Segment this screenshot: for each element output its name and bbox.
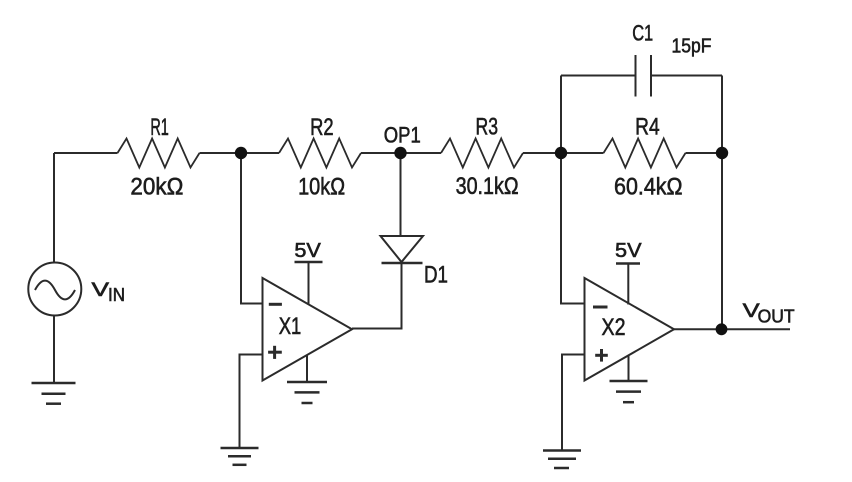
svg-text:5V: 5V xyxy=(294,240,321,262)
node OP1 label xyxy=(384,123,421,148)
svg-text:R3: R3 xyxy=(476,114,499,141)
svg-text:IN: IN xyxy=(108,285,125,305)
wire node A to R2 xyxy=(241,152,279,154)
X1 inverting input minus mark xyxy=(269,303,282,306)
sine symbol xyxy=(35,281,75,300)
wire capacitor top left xyxy=(561,75,636,77)
source circle xyxy=(28,263,81,316)
ground (X2 non-inverting input) xyxy=(543,451,581,469)
resistor R1 zigzag body xyxy=(118,139,200,168)
op-amp X1 xyxy=(263,278,353,381)
svg-text:15pF: 15pF xyxy=(672,36,712,58)
wire X2 to ground xyxy=(628,355,630,381)
svg-text:10kΩ: 10kΩ xyxy=(298,174,345,201)
svg-text:R1: R1 xyxy=(150,114,169,141)
wire R4 to node C xyxy=(686,152,723,154)
diode D1 xyxy=(381,236,449,289)
ground (X1 op-amp) xyxy=(287,356,327,404)
resistor R4 xyxy=(604,114,686,201)
wire capacitor top right xyxy=(651,75,722,77)
wire R1 to node A xyxy=(200,152,242,154)
resistor R2 zigzag body xyxy=(279,139,361,168)
wire supply to X2 xyxy=(627,264,629,305)
wire R2 to node OP1 and on to R3 xyxy=(361,152,441,154)
op-amp X1 triangle xyxy=(263,278,353,381)
wire R3 to node B xyxy=(523,152,604,154)
resistor R4 zigzag body xyxy=(604,139,686,168)
node VOUT junction dot xyxy=(716,323,728,335)
svg-text:R4: R4 xyxy=(635,114,660,141)
supply bar xyxy=(295,261,323,264)
svg-text:5V: 5V xyxy=(615,240,642,262)
X1 non-inverting input plus mark xyxy=(268,351,282,354)
wire X1 non-inverting input to ground xyxy=(240,355,263,449)
capacitor C1 xyxy=(632,21,711,97)
wire source to ground xyxy=(53,316,55,384)
wire X2 non-inverting input to ground xyxy=(562,355,585,451)
svg-text:60.4kΩ: 60.4kΩ xyxy=(614,174,683,201)
diode triangle xyxy=(381,236,424,262)
wire input corner to R1 xyxy=(54,152,118,154)
node C junction dot xyxy=(716,147,728,159)
wire X1 output up to diode xyxy=(352,263,402,329)
svg-text:OP1: OP1 xyxy=(384,123,421,148)
resistor R3 xyxy=(441,114,523,201)
svg-text:30.1kΩ: 30.1kΩ xyxy=(456,173,519,200)
op-amp X2 xyxy=(585,278,675,381)
X2 inverting input minus mark xyxy=(593,306,608,309)
svg-text:D1: D1 xyxy=(424,262,448,289)
wire node A down to X1 inverting input xyxy=(241,153,263,304)
op-amp X2 triangle xyxy=(585,278,675,381)
supply 5V (X2) xyxy=(615,240,642,305)
wire feedback right drop to output xyxy=(721,76,723,330)
wire X1 to ground xyxy=(306,356,308,383)
svg-text:OUT: OUT xyxy=(758,307,795,327)
capacitor right plate xyxy=(650,55,652,97)
node A junction dot xyxy=(235,147,247,159)
ground (X1 non-inverting input) xyxy=(221,448,259,465)
ground (source) xyxy=(32,383,76,404)
svg-text:V: V xyxy=(92,280,110,301)
resistor R2 xyxy=(279,114,361,201)
resistor R3 zigzag body xyxy=(441,139,523,168)
svg-text:20kΩ: 20kΩ xyxy=(130,174,183,201)
wire X2 output to VOUT xyxy=(674,328,790,330)
svg-text:R2: R2 xyxy=(310,114,334,141)
wire supply to X1 xyxy=(308,262,310,304)
capacitor left plate xyxy=(635,55,637,97)
svg-text:X2: X2 xyxy=(602,314,626,341)
svg-text:X1: X1 xyxy=(279,313,302,340)
node OP1 junction dot xyxy=(394,147,406,159)
wire node OP1 down to diode anode xyxy=(400,153,402,236)
wire node B up to capacitor and down to X2 inverting input xyxy=(561,76,585,304)
ground (X2 op-amp) xyxy=(610,355,648,402)
diode cathode bar xyxy=(382,262,423,265)
resistor R1 xyxy=(118,114,200,201)
node B junction dot xyxy=(555,147,567,159)
label VOUT xyxy=(743,300,795,327)
svg-text:C1: C1 xyxy=(632,21,653,46)
supply 5V (X1) xyxy=(294,240,322,304)
voltage source VIN xyxy=(28,263,125,316)
supply bar xyxy=(616,262,640,265)
wire input corner down to source xyxy=(53,153,55,263)
X2 non-inverting input plus mark xyxy=(595,354,608,357)
